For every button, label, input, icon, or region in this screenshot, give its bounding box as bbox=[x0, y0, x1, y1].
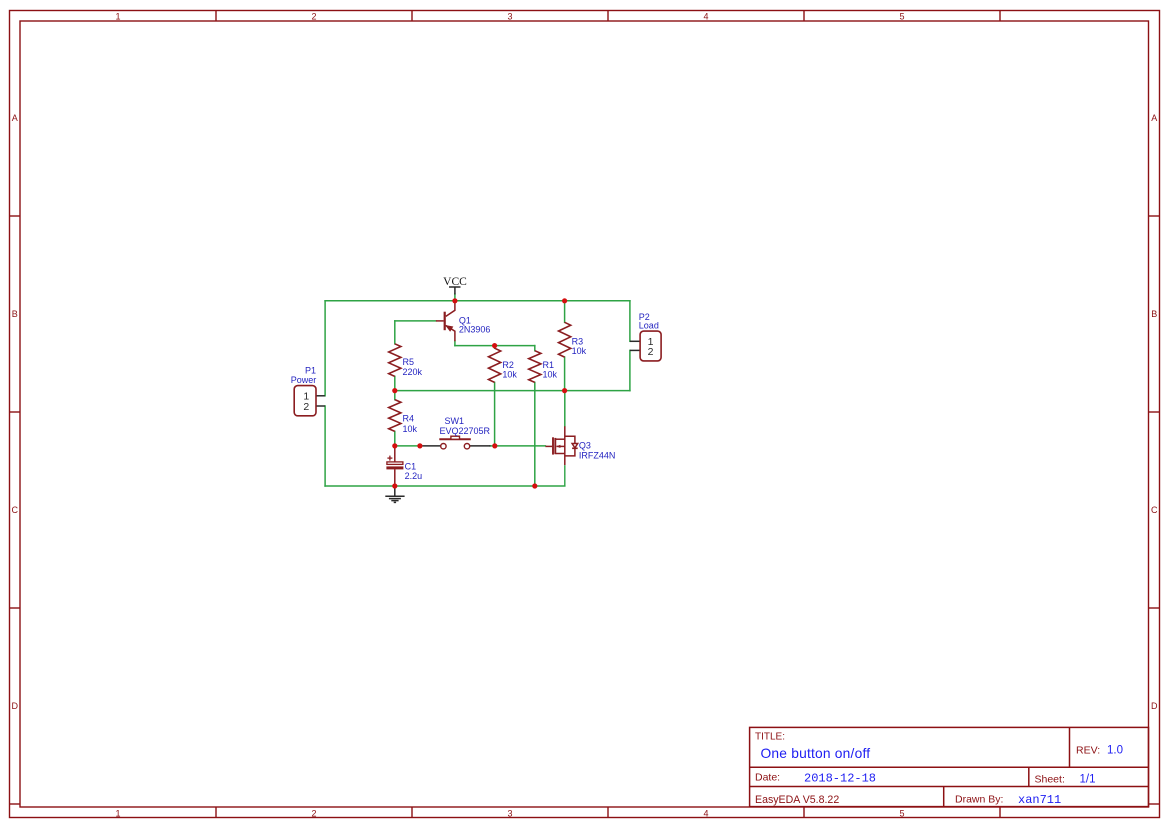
svg-text:SW1: SW1 bbox=[445, 416, 465, 426]
svg-text:P1: P1 bbox=[305, 365, 316, 375]
svg-text:1: 1 bbox=[115, 808, 120, 818]
svg-text:TITLE:: TITLE: bbox=[755, 732, 785, 743]
svg-text:2N3906: 2N3906 bbox=[459, 325, 491, 335]
svg-text:1: 1 bbox=[115, 11, 120, 21]
svg-text:REV:: REV: bbox=[1076, 745, 1100, 757]
svg-text:10k: 10k bbox=[403, 424, 418, 434]
svg-text:C: C bbox=[1151, 505, 1158, 515]
svg-text:xan711: xan711 bbox=[1018, 793, 1061, 807]
svg-text:3: 3 bbox=[507, 808, 512, 818]
svg-text:R4: R4 bbox=[403, 414, 415, 424]
svg-text:1.0: 1.0 bbox=[1107, 745, 1123, 757]
svg-text:5: 5 bbox=[899, 808, 904, 818]
svg-text:B: B bbox=[1151, 309, 1157, 319]
svg-text:VCC: VCC bbox=[443, 276, 467, 288]
svg-text:B: B bbox=[12, 309, 18, 319]
svg-text:Sheet:: Sheet: bbox=[1035, 774, 1065, 786]
svg-text:Load: Load bbox=[639, 321, 659, 331]
svg-text:2.2u: 2.2u bbox=[405, 471, 423, 481]
svg-text:10k: 10k bbox=[543, 370, 558, 380]
svg-text:2: 2 bbox=[311, 808, 316, 818]
svg-text:2018-12-18: 2018-12-18 bbox=[804, 771, 876, 785]
svg-text:D: D bbox=[1151, 701, 1158, 711]
svg-text:Date:: Date: bbox=[755, 772, 780, 784]
svg-text:1/1: 1/1 bbox=[1080, 774, 1096, 786]
svg-text:A: A bbox=[12, 113, 18, 123]
svg-text:2: 2 bbox=[648, 346, 654, 358]
svg-text:4: 4 bbox=[703, 11, 708, 21]
svg-text:Drawn By:: Drawn By: bbox=[955, 794, 1003, 806]
svg-text:2: 2 bbox=[303, 401, 309, 413]
svg-text:Power: Power bbox=[291, 375, 317, 385]
svg-text:10k: 10k bbox=[572, 346, 587, 356]
svg-text:A: A bbox=[1151, 113, 1157, 123]
svg-text:220k: 220k bbox=[403, 367, 423, 377]
svg-text:EasyEDA V5.8.22: EasyEDA V5.8.22 bbox=[755, 794, 839, 806]
svg-text:5: 5 bbox=[899, 11, 904, 21]
svg-text:EVQ22705R: EVQ22705R bbox=[440, 426, 491, 436]
svg-text:4: 4 bbox=[703, 808, 708, 818]
svg-text:10k: 10k bbox=[502, 370, 517, 380]
svg-text:One button on/off: One button on/off bbox=[761, 746, 871, 761]
svg-text:Q3: Q3 bbox=[579, 440, 591, 450]
svg-text:2: 2 bbox=[311, 11, 316, 21]
svg-text:D: D bbox=[12, 701, 19, 711]
svg-text:3: 3 bbox=[507, 11, 512, 21]
svg-text:IRFZ44N: IRFZ44N bbox=[579, 451, 616, 461]
svg-text:C: C bbox=[12, 505, 19, 515]
svg-text:R5: R5 bbox=[403, 357, 415, 367]
